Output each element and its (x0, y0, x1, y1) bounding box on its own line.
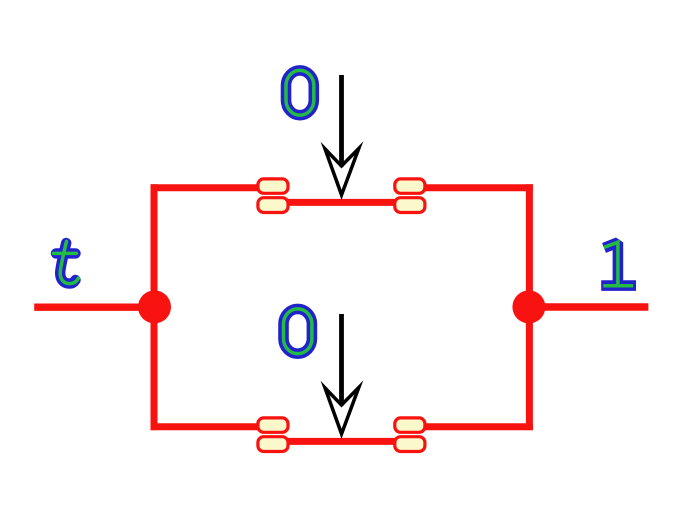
label 0 (bottom control value) (284, 309, 312, 354)
switch S2 contact bottom-right pair (395, 418, 425, 452)
wire bottom right segment (417, 423, 533, 430)
switch S2 contact bottom-left pair (258, 418, 288, 452)
wire bottom left segment (151, 423, 267, 430)
node t junction dot (138, 290, 171, 323)
wire left stub (node t) (34, 304, 157, 311)
wire top right segment (417, 184, 533, 191)
node 1 junction dot (512, 290, 545, 323)
label 1 (right terminal) (604, 242, 631, 286)
wire top bridge (283, 199, 399, 206)
arrow S2 actuation head (321, 380, 364, 439)
switch S1 contact top-right pair (395, 179, 425, 213)
arrow S2 actuation shaft (339, 314, 344, 406)
wire bottom bridge (283, 438, 399, 445)
switch S1 contact top-left pair (258, 179, 288, 213)
label t (left terminal) (53, 241, 78, 283)
wire right stub (node 1) (527, 303, 648, 310)
arrow S1 actuation shaft (339, 75, 344, 167)
wire left vertical (151, 184, 158, 430)
wire right vertical (526, 184, 533, 430)
arrow S1 actuation head (321, 141, 364, 200)
label 0 (top control value) (286, 70, 314, 115)
wire top left segment (151, 184, 267, 191)
